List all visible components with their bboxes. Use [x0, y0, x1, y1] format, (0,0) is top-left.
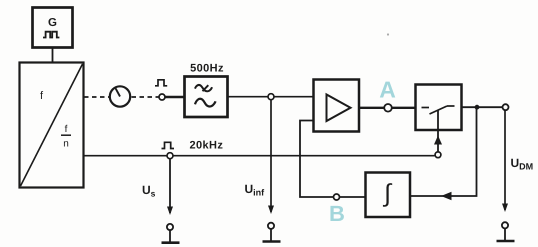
sampling switch — [416, 85, 462, 131]
wire G to divider — [52, 48, 54, 63]
ground (U_s) — [162, 230, 180, 242]
svg-text:A: A — [379, 77, 396, 103]
U_DM branch wire and arrow — [502, 110, 508, 212]
frequency divider f/n — [20, 63, 84, 188]
switch control node — [435, 152, 441, 158]
node B — [329, 194, 345, 226]
wire 20kHz line — [84, 155, 435, 157]
node U_s tap — [167, 153, 173, 159]
U_s branch wire and arrow — [167, 159, 173, 215]
wire amplifier to switch — [359, 107, 415, 109]
pulse symbol 20kHz — [162, 142, 175, 148]
ground (U_DM) — [497, 229, 515, 241]
U_DM terminal — [502, 222, 508, 228]
speck artifact — [387, 33, 389, 35]
svg-text:f: f — [65, 124, 68, 135]
svg-text:B: B — [329, 201, 345, 226]
svg-text:500Hz: 500Hz — [190, 63, 224, 75]
svg-text:n: n — [63, 139, 69, 150]
switch control wire and arrow — [434, 111, 442, 153]
svg-text:G: G — [48, 17, 57, 29]
svg-text:20kHz: 20kHz — [190, 140, 224, 152]
bandpass filter 500Hz — [185, 63, 228, 118]
node U_inf tap — [268, 94, 274, 100]
junction — [475, 105, 480, 110]
pulse symbol at 500Hz tap — [155, 80, 167, 86]
wire integrator output to node B and amplifier — [300, 121, 365, 198]
ground (U_inf) — [263, 229, 281, 241]
U_inf branch wire and arrow — [268, 100, 274, 214]
integrator — [366, 173, 411, 218]
feedback wire junction to integrator — [410, 107, 477, 200]
wire switch to output — [462, 106, 503, 108]
U_inf terminal — [268, 223, 274, 229]
node (500Hz tap) — [159, 94, 165, 100]
U_s terminal — [167, 224, 173, 230]
wire filter to amplifier — [228, 96, 314, 98]
wire node to filter — [165, 96, 184, 98]
meter — [110, 86, 130, 106]
amplifier — [314, 80, 360, 132]
wire dashed divider to meter — [84, 96, 110, 98]
wire dashed meter to node — [132, 96, 159, 98]
node A — [379, 77, 396, 112]
output terminal — [503, 104, 509, 110]
generator G — [33, 8, 73, 48]
